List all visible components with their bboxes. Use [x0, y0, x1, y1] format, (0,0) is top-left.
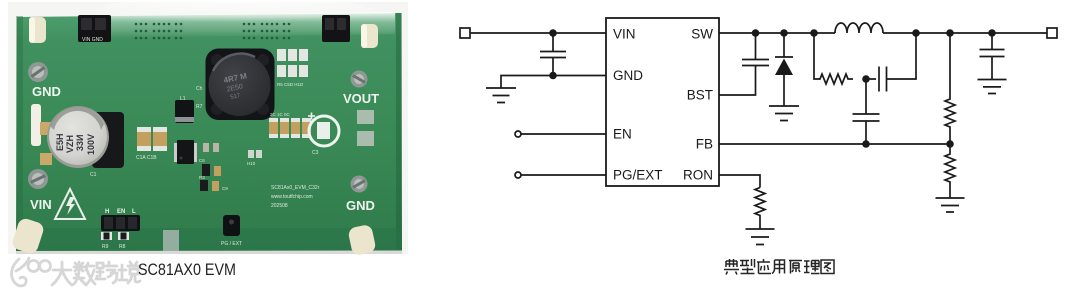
svg-text:L: L [132, 209, 136, 215]
tan smd caps row [269, 118, 311, 138]
svg-text:GND: GND [613, 68, 643, 83]
大 [52, 262, 72, 285]
svg-text:R7: R7 [196, 104, 203, 110]
wire SW rail [719, 32, 1047, 34]
main IC SOIC8 [174, 140, 197, 164]
svg-text:R8: R8 [119, 244, 126, 250]
big inductor [206, 49, 275, 121]
standoff bottom-right [347, 224, 376, 256]
svg-text:VOUT: VOUT [343, 91, 379, 106]
svg-text:GND: GND [32, 84, 61, 99]
svg-text:VIN: VIN [30, 197, 52, 212]
C3 white circle footprint [309, 116, 339, 146]
screw GND top-left [28, 62, 48, 82]
理 [804, 261, 820, 274]
screw GND bottom-right [351, 176, 368, 193]
svg-text:33И: 33И [75, 135, 85, 151]
green PCB board [16, 13, 402, 251]
ground (RON) [746, 229, 775, 245]
standoff top-right [361, 24, 378, 48]
left dark edge [16, 16, 23, 251]
wire PG/EXT [521, 174, 606, 176]
svg-text:Ch: Ch [196, 86, 203, 92]
wire FB [719, 143, 950, 145]
IC pin labels [613, 27, 713, 183]
svg-text:100V: 100V [86, 134, 96, 155]
node L-right [912, 29, 920, 37]
ground (divider) [936, 198, 965, 212]
应 [757, 259, 771, 274]
svg-text:GND: GND [346, 198, 375, 213]
via grid 1 [135, 23, 183, 40]
svg-text:E5H: E5H [55, 133, 65, 151]
svg-text:2C 1C 0C: 2C 1C 0C [270, 112, 291, 117]
white clip left of big cap [31, 104, 41, 146]
connector top-right [322, 15, 350, 42]
big electrolytic capacitor [92, 112, 124, 168]
svg-text:C6: C6 [199, 158, 205, 163]
svg-text:R5 C5D H1D: R5 C5D H1D [277, 82, 304, 87]
standoff bottom-left [11, 217, 46, 255]
connector top-left [78, 15, 111, 42]
warning triangle [55, 189, 85, 219]
silkscreen text block [271, 185, 320, 209]
wire GND pin [501, 76, 606, 89]
resistor R_FB1 [945, 33, 955, 144]
svg-text:RON: RON [683, 168, 713, 183]
node VOUT divider top [946, 29, 954, 37]
photo background [8, 2, 408, 254]
standoff top-left [29, 17, 46, 43]
node SW-diode [780, 29, 788, 37]
svg-text:FB: FB [696, 137, 713, 152]
境 [119, 262, 140, 283]
node RC mid [862, 75, 870, 83]
ground (output cap) [978, 80, 1007, 94]
wire EN [521, 133, 606, 135]
svg-text:VIN: VIN [613, 27, 636, 42]
svg-text:202508: 202508 [271, 203, 288, 209]
smd pads right of inductor row1 [277, 49, 308, 77]
原 [789, 261, 802, 274]
node GND junction [549, 72, 557, 80]
output terminal square [1047, 28, 1057, 38]
screw VIN [28, 169, 48, 189]
diode near IC [175, 100, 194, 123]
capacitor C_FF (feed-forward) [853, 79, 880, 144]
node FB junction [946, 140, 954, 148]
svg-text:C3: C3 [312, 150, 319, 156]
capacitor C_D (series) [866, 33, 916, 92]
PG/EXT button [223, 215, 240, 236]
用 [772, 260, 785, 274]
capacitor C_OUT [980, 33, 1005, 80]
node output cap [988, 29, 996, 37]
典 [724, 259, 739, 275]
svg-text:EN: EN [613, 127, 632, 142]
svg-text:VZH: VZH [65, 135, 75, 153]
top reflection [85, 12, 395, 38]
svg-text:EN: EN [117, 209, 125, 215]
svg-text:PG/EXT: PG/EXT [613, 168, 663, 183]
C1A C1B caps [137, 127, 151, 151]
型 [740, 259, 755, 274]
wire RON [719, 175, 760, 188]
node SW-BST [752, 29, 760, 37]
watermark text 大数跨境 (hand-drawn) [52, 262, 140, 285]
diode D1 [775, 33, 793, 57]
node FB-CFF [862, 140, 870, 148]
wire input to VIN [470, 32, 606, 34]
svg-text:H: H [105, 209, 109, 215]
pale pad below center [164, 251, 166, 253]
node L-left [810, 29, 818, 37]
svg-text:R9: R9 [102, 244, 109, 250]
svg-text:SC81Ax0_EVM_C32r: SC81Ax0_EVM_C32r [271, 185, 320, 191]
grey unpopulated pads right [357, 110, 374, 124]
resistor R_D (damping) [814, 33, 853, 84]
small parts cluster [203, 143, 209, 152]
caption 典型应用原理图 (hand-drawn) [724, 259, 834, 275]
svg-text:R3: R3 [199, 175, 205, 180]
svg-text:CAUTION: CAUTION [61, 213, 77, 217]
svg-text:PG / EXT: PG / EXT [221, 241, 242, 247]
图 [821, 260, 834, 274]
op-amp U1 main IC block [606, 18, 719, 186]
resistor R_FB2 [945, 144, 955, 198]
svg-text:SW: SW [691, 27, 713, 42]
svg-text:www.toutfchip.com: www.toutfchip.com [271, 194, 313, 200]
screw VOUT [351, 71, 368, 88]
svg-text:C1: C1 [90, 172, 97, 178]
svg-text:VIN GND: VIN GND [82, 37, 103, 43]
node VIN junction [549, 29, 557, 37]
数 [74, 262, 95, 285]
svg-text:BST: BST [687, 88, 713, 103]
via grid 2 [243, 23, 291, 40]
capacitor C_BST [719, 33, 769, 95]
svg-text:C1A C1B: C1A C1B [136, 155, 157, 161]
input terminal square [460, 28, 470, 38]
board shadow [16, 246, 402, 254]
inductor L1 [835, 23, 883, 33]
bottom dark band [16, 228, 402, 251]
EN terminal [515, 131, 521, 137]
resistor R_ON [755, 188, 765, 230]
PG/EXT terminal [515, 172, 521, 178]
ground (input) [486, 88, 516, 103]
svg-text:H10: H10 [247, 161, 256, 166]
capacitor C_IN [540, 33, 566, 76]
watermark logo [12, 258, 51, 286]
跨 [96, 262, 117, 283]
svg-text:SC81AX0 EVM: SC81AX0 EVM [138, 260, 236, 279]
ground (diode) [769, 106, 799, 121]
svg-text:C9: C9 [222, 186, 228, 191]
